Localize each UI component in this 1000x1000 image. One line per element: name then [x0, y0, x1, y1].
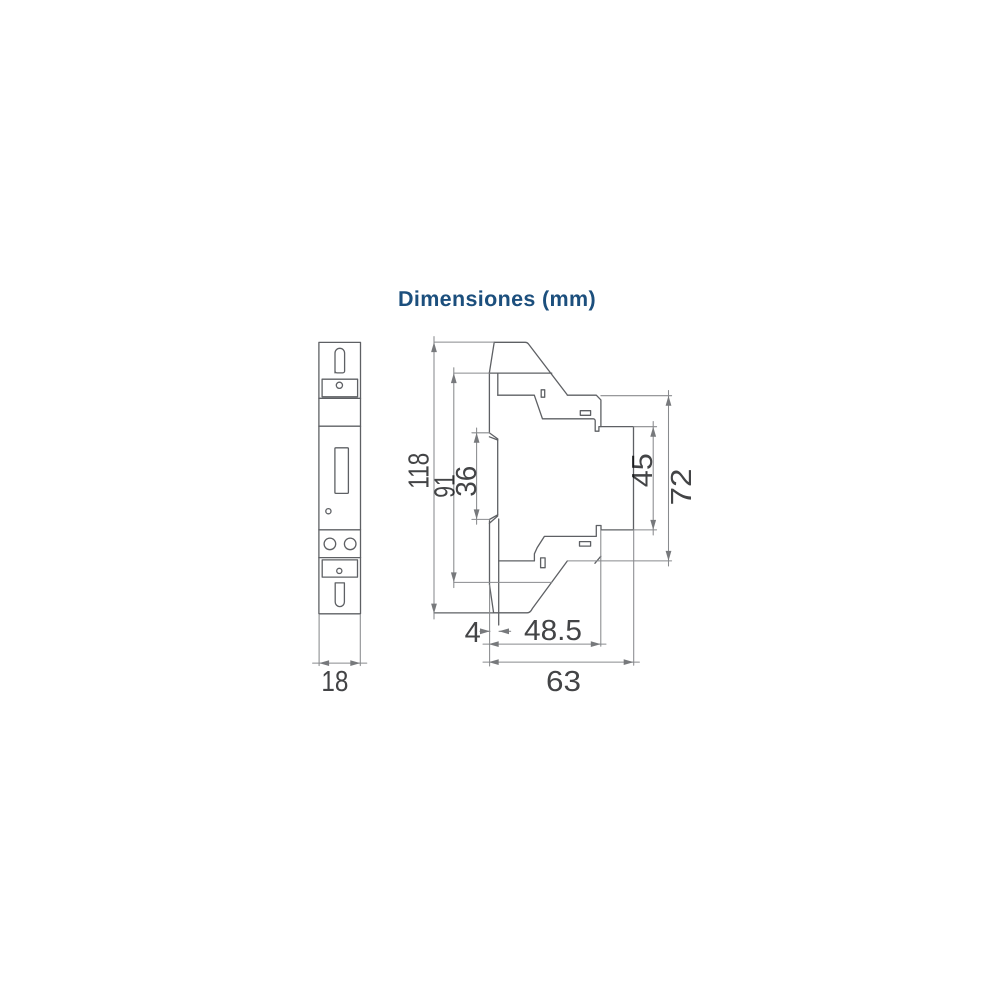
- dimension 118 bottom extension: [434, 612, 494, 614]
- dimension 18 line: [313, 662, 367, 664]
- dimension 36 top tick: [472, 432, 490, 434]
- front view top clip screw: [336, 382, 342, 388]
- dimension 63 arrow left: [489, 659, 499, 665]
- dimension 91 line: [453, 368, 455, 588]
- front view bottom slot: [335, 583, 344, 607]
- dimension 45 bottom extension: [634, 529, 657, 531]
- svg-text:63: 63: [546, 666, 581, 698]
- dimension 45 top extension: [634, 426, 657, 428]
- dimension 36 line: [476, 428, 478, 524]
- side view front recess lower notch: [489, 515, 497, 524]
- svg-text:48.5: 48.5: [524, 615, 582, 647]
- side view plate back top: [497, 373, 499, 395]
- dimension 72 line: [668, 391, 670, 567]
- dimension 18 extension right: [359, 615, 361, 666]
- front view terminal hole right: [344, 538, 356, 550]
- side view shelf line: [499, 560, 535, 562]
- dimension 4 arrow right: [499, 628, 509, 634]
- dimension 118 line: [433, 337, 435, 619]
- dimension 36 arrow bottom: [474, 509, 480, 519]
- front view outer body: [319, 342, 361, 613]
- side view front recess face: [497, 439, 499, 515]
- front view section line D: [319, 557, 361, 559]
- dimension 63 right extension: [633, 530, 635, 665]
- dimension 91 bottom extension: [454, 581, 552, 583]
- svg-text:72: 72: [666, 469, 698, 506]
- front view section line A: [319, 397, 361, 399]
- svg-text:4: 4: [465, 617, 481, 649]
- front view window slot: [335, 448, 349, 494]
- front view top clip plate: [322, 379, 358, 397]
- front view bottom clip screw: [337, 568, 342, 573]
- side view outline: [494, 342, 633, 561]
- side view detail rect bottom horizontal: [580, 542, 591, 547]
- front view bottom clip plate: [322, 560, 357, 577]
- svg-text:18: 18: [321, 666, 348, 698]
- dimension 63 line: [483, 661, 639, 663]
- dimension 4 arrow left: [480, 628, 490, 634]
- dimension 48.5 arrow right: [591, 641, 601, 647]
- dimension 45 arrow bottom: [650, 520, 656, 530]
- side view bottom clip tick: [595, 556, 601, 563]
- dimension 4 tail right: [499, 630, 511, 632]
- svg-text:Dimensiones (mm): Dimensiones (mm): [398, 287, 596, 311]
- dimension 18 arrow right: [350, 660, 360, 666]
- side view detail rect top vertical: [541, 390, 545, 397]
- side view detail rect top horizontal: [580, 411, 590, 416]
- side view front recess upper notch: [489, 433, 497, 440]
- dimension 118 arrow bottom: [431, 604, 437, 614]
- front view section line C: [319, 529, 361, 531]
- dimension 72 arrow bottom: [666, 551, 672, 561]
- svg-text:36: 36: [451, 466, 483, 497]
- dimension 18 extension left: [318, 615, 320, 666]
- side view top front tilted edge: [489, 342, 494, 372]
- front view terminal hole left: [324, 538, 336, 550]
- dimension 72 top extension: [601, 395, 672, 397]
- dimension 18 arrow left: [319, 660, 329, 666]
- front view small hole: [326, 509, 331, 514]
- front view top slot: [335, 348, 345, 373]
- side view plate back line: [498, 519, 500, 625]
- dimension 72 bottom extension: [567, 560, 671, 562]
- side view detail rect bottom vertical: [541, 558, 546, 568]
- dimension 36 arrow top: [474, 433, 480, 443]
- dimension 91 arrow top: [451, 373, 457, 383]
- dimension 48.5 arrow left: [489, 641, 499, 647]
- side view bottom slope: [490, 521, 568, 613]
- dimension 118 arrow top: [431, 342, 437, 352]
- dimension 118 top extension: [434, 341, 494, 343]
- side view interior edge top: [489, 372, 551, 374]
- dimension 45 arrow top: [650, 427, 656, 437]
- dimension 91 top extension: [454, 372, 490, 374]
- dimension 4 left extension: [489, 585, 491, 666]
- side view front face upper: [488, 373, 490, 433]
- dimension 72 arrow top: [666, 396, 672, 406]
- svg-text:45: 45: [627, 453, 659, 487]
- dimension 36 bottom tick: [472, 518, 490, 520]
- dimension 48.5 right extension: [600, 530, 602, 646]
- dimension 4 tail left: [480, 630, 490, 632]
- dimension 63 arrow right: [624, 659, 634, 665]
- dimension 48.5 line: [483, 643, 606, 645]
- dimension 91 arrow bottom: [451, 572, 457, 582]
- side view interior step top: [498, 395, 601, 431]
- dimension 45 line: [652, 422, 654, 536]
- front view section line B: [319, 425, 361, 427]
